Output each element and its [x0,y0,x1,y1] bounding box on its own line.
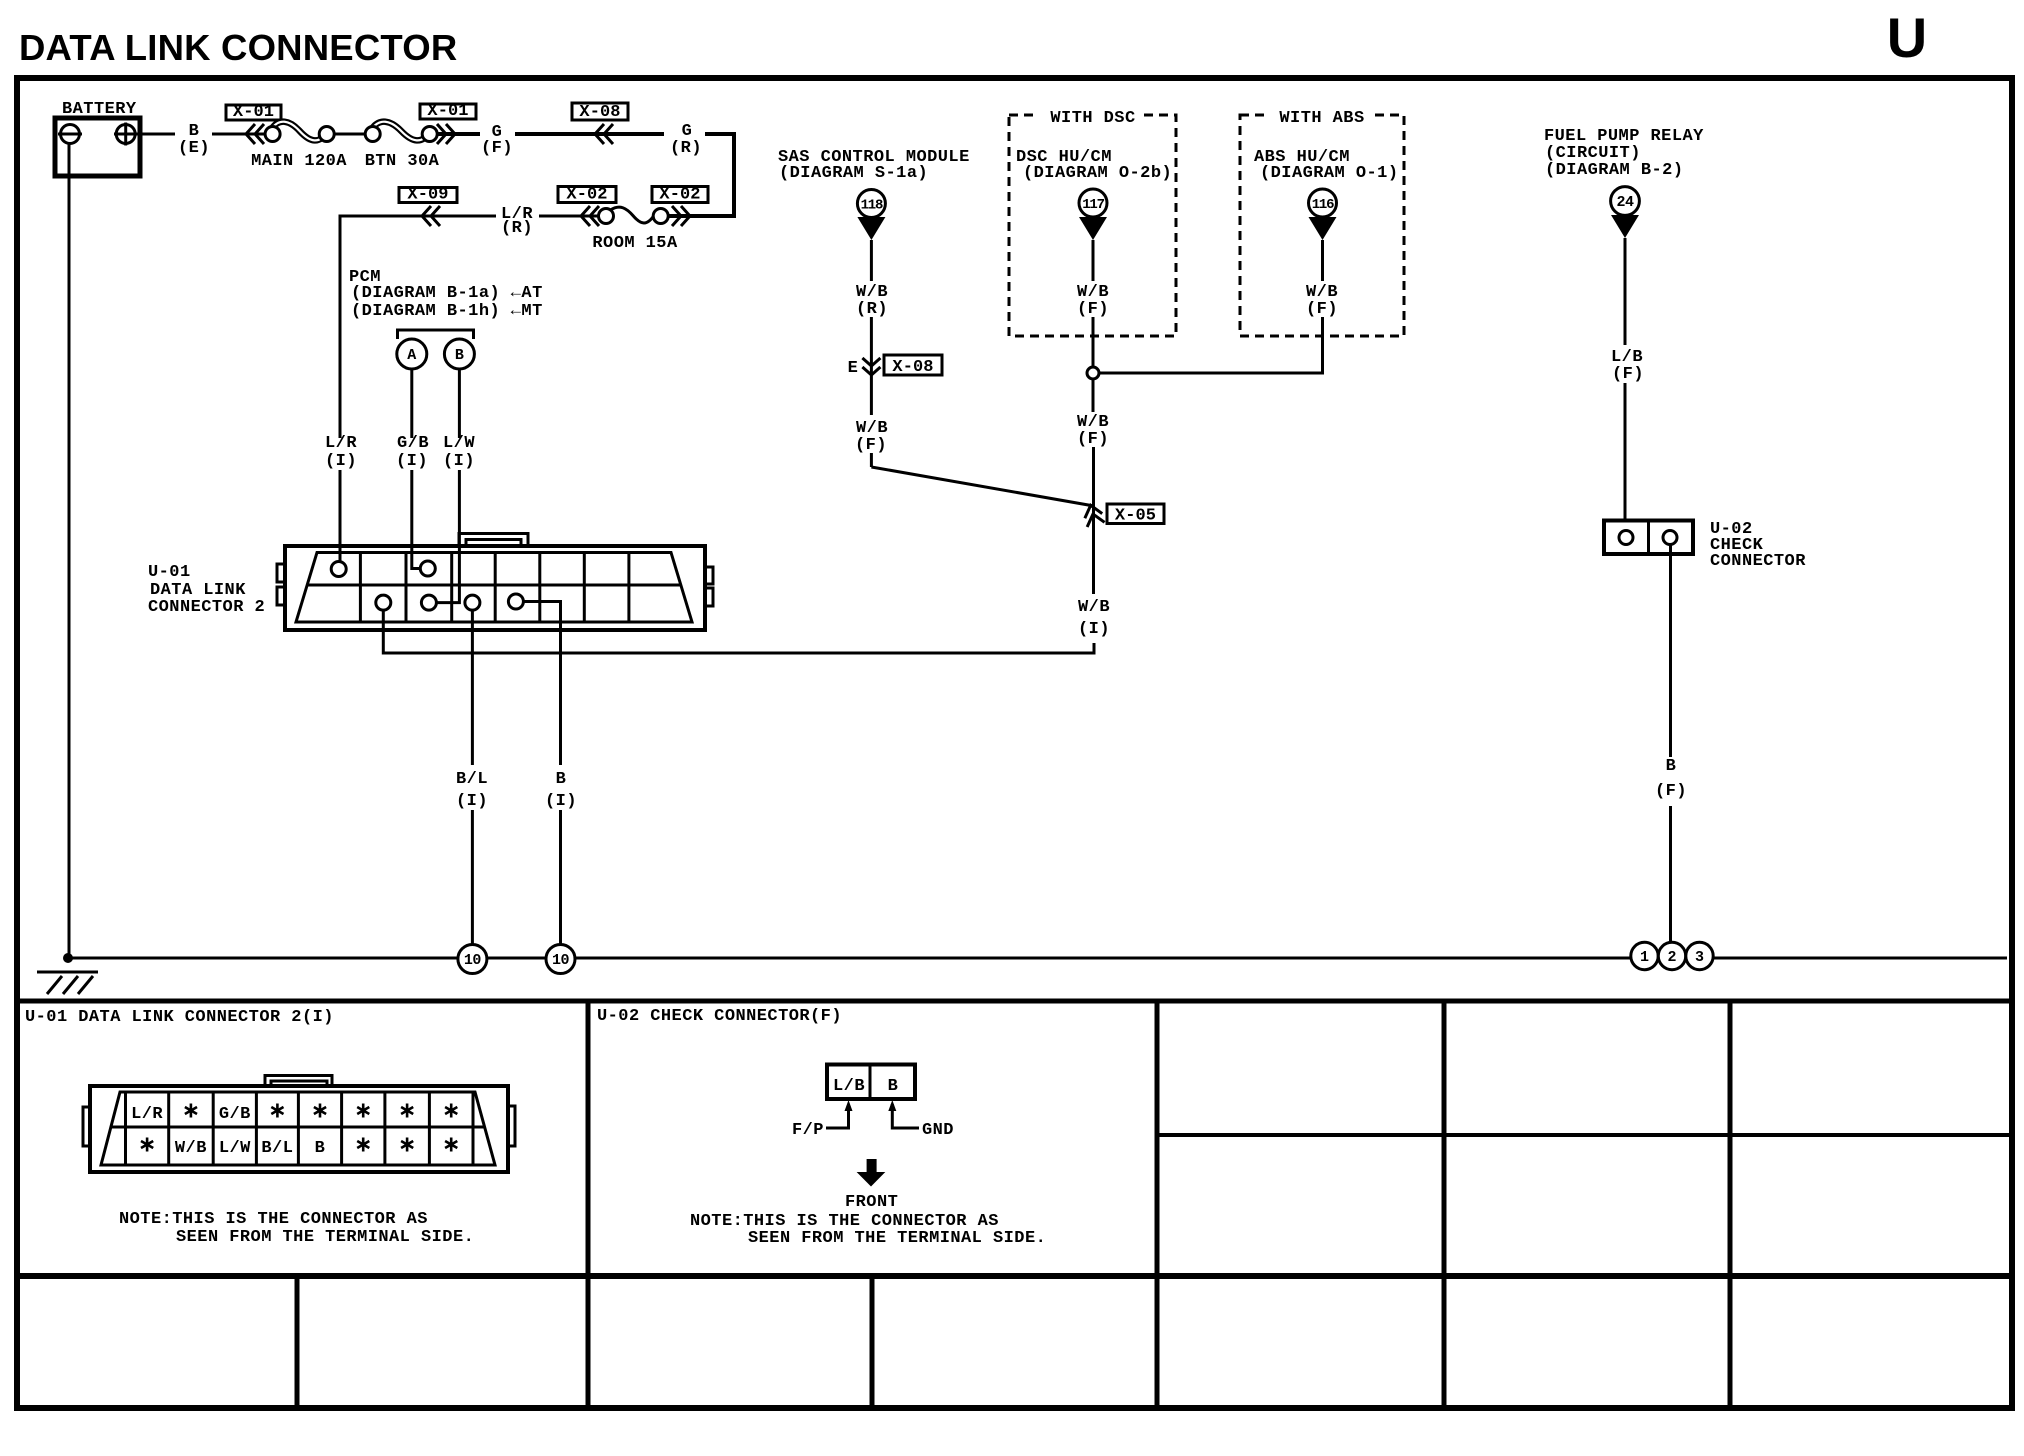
wire node down to X-05 [1092,379,1095,412]
svg-text:(F): (F) [855,436,887,455]
fusible link MAIN 120A [272,122,328,141]
connector U-02 check connector (schematic) [1604,521,1693,555]
wire to fuse MAIN [212,133,266,136]
svg-text:(R): (R) [670,139,702,158]
wire W/B (F) DSC [1092,240,1095,281]
svg-text:B/L: B/L [456,770,488,789]
svg-text:MAIN 120A: MAIN 120A [251,152,347,171]
wire between fuses [334,133,366,136]
fuse ROOM 15A [611,207,657,223]
U-01 pin L/W [421,595,436,610]
svg-text:W/B: W/B [1078,598,1110,617]
svg-text:B: B [315,1139,326,1158]
svg-text:A: A [407,347,416,364]
svg-text:(F): (F) [1306,300,1338,319]
svg-text:116: 116 [1312,197,1334,213]
svg-text:(E): (E) [178,139,210,158]
wire B (I) to ground [523,602,560,766]
svg-text:L/W: L/W [443,434,475,453]
wire G/B (I) [410,369,413,438]
connector X-02 (left) [558,187,616,203]
wire B (F) [1669,545,1672,758]
DSC HU/CM dashed box WITH DSC [1009,115,1176,336]
ground symbol [37,971,98,974]
svg-text:G/B: G/B [397,434,429,453]
svg-text:ROOM 15A: ROOM 15A [592,234,678,253]
svg-text:B: B [455,347,464,364]
svg-text:BTN 30A: BTN 30A [365,152,440,171]
svg-text:X-01: X-01 [233,103,274,122]
wire W/B (R) [870,240,873,281]
wire L/W (I) [458,369,461,438]
svg-text:DATA LINK CONNECTOR: DATA LINK CONNECTOR [19,27,457,68]
U-01 pin G/B [420,561,435,576]
table grid [17,999,2012,1004]
wire W/B (F) ABS [1321,240,1324,281]
svg-text:U-02 CHECK CONNECTOR(F): U-02 CHECK CONNECTOR(F) [597,1007,842,1026]
svg-text:10: 10 [464,952,482,969]
svg-text:(F): (F) [1077,300,1109,319]
svg-text:(DIAGRAM O-2b): (DIAGRAM O-2b) [1023,164,1172,183]
ABS HU/CM dashed box WITH ABS [1240,115,1404,336]
PCM terminal A [397,339,427,369]
svg-text:B: B [556,770,567,789]
svg-text:(DIAGRAM B-1a) ←AT: (DIAGRAM B-1a) ←AT [351,284,543,303]
svg-text:2: 2 [1667,949,1676,966]
svg-text:117: 117 [1082,197,1104,213]
svg-text:10: 10 [552,952,570,969]
svg-text:(DIAGRAM B-2): (DIAGRAM B-2) [1545,161,1683,180]
svg-text:CONNECTOR: CONNECTOR [1710,552,1806,571]
wire B/L (I) to ground [471,610,474,765]
svg-text:B: B [1666,757,1677,776]
ground terminal 10 (B) [546,945,575,974]
connector X-02 (right) [652,187,708,203]
connector X-01 (right) [420,104,476,119]
svg-text:L/R: L/R [131,1105,163,1124]
svg-text:X-01: X-01 [427,102,468,121]
FRONT arrow [867,1159,877,1172]
svg-text:E: E [848,359,859,378]
U-01 pin B [508,594,523,609]
wire W/B (I) from U-01 to X-05 [383,610,1094,653]
svg-text:X-08: X-08 [892,358,933,377]
ground terminal 2 [1658,942,1685,969]
svg-text:X-09: X-09 [407,186,448,205]
svg-text:F/P: F/P [792,1121,824,1140]
svg-text:(F): (F) [481,139,513,158]
wire L/B (F) [1624,238,1627,345]
svg-text:G/B: G/B [219,1105,251,1124]
inline connector X-05 [1082,503,1105,527]
svg-text:3: 3 [1695,949,1704,966]
wire fuse to G(F) [437,132,480,136]
battery negative wire to ground [68,144,71,959]
svg-text:U-01 DATA LINK CONNECTOR 2(I): U-01 DATA LINK CONNECTOR 2(I) [25,1008,334,1027]
svg-text:(F): (F) [1612,365,1644,384]
svg-text:118: 118 [861,198,883,214]
svg-text:(F): (F) [1077,430,1109,449]
U-01 pin W/B [376,595,391,610]
ground terminal 3 [1686,942,1713,969]
svg-text:B/L: B/L [261,1139,293,1158]
wire battery plus to X-01 [138,133,175,136]
wire G(F) to G(R) through X-08 [515,132,664,136]
svg-text:X-05: X-05 [1115,507,1156,526]
svg-text:(I): (I) [396,452,428,471]
svg-text:L/R: L/R [325,434,357,453]
U-02 pinout connector drawing [827,1065,915,1100]
svg-text:W/B: W/B [175,1139,207,1158]
svg-text:X-02: X-02 [659,186,700,205]
svg-text:CONNECTOR 2: CONNECTOR 2 [148,598,265,617]
svg-text:SEEN FROM THE TERMINAL SIDE.: SEEN FROM THE TERMINAL SIDE. [748,1229,1046,1248]
svg-text:(F): (F) [1655,782,1687,801]
svg-text:(R): (R) [501,219,533,238]
PCM terminal B [444,339,474,369]
svg-text:FRONT: FRONT [845,1193,898,1212]
wire G(R) corner down to room fuse row [668,134,734,216]
F/P pin pointer [826,1104,849,1128]
svg-text:U-01: U-01 [148,563,191,582]
svg-text:WITH DSC: WITH DSC [1050,109,1135,128]
svg-text:(DIAGRAM S-1a): (DIAGRAM S-1a) [779,164,928,183]
PCM bracket [398,330,474,339]
connector X-09 [399,188,457,203]
U-01 pinout labels row 2 [141,1138,153,1152]
fusible link BTN 30A [372,122,431,141]
wire room fuse to L/R(R) label [539,215,599,218]
junction node [1087,367,1099,379]
U-01 pin B/L [465,595,480,610]
svg-text:L/W: L/W [219,1139,251,1158]
wire to X-09 and corner down at x=340 [340,216,496,438]
connector X-01 (left) [226,105,281,120]
svg-text:(I): (I) [456,792,488,811]
svg-text:L/B: L/B [833,1077,865,1096]
connector X-08 [572,103,628,120]
U-01 pinout connector drawing [265,1076,332,1087]
svg-text:NOTE:THIS IS THE CONNECTOR AS: NOTE:THIS IS THE CONNECTOR AS [119,1210,428,1229]
svg-text:U: U [1887,6,1927,69]
svg-text:(I): (I) [545,792,577,811]
svg-text:WITH ABS: WITH ABS [1279,109,1364,128]
svg-text:(DIAGRAM B-1h) ←MT: (DIAGRAM B-1h) ←MT [351,302,543,321]
svg-text:SEEN FROM THE TERMINAL SIDE.: SEEN FROM THE TERMINAL SIDE. [176,1228,474,1247]
ground terminal 10 (B/L) [458,945,487,974]
ground terminal 1 [1631,942,1658,969]
svg-text:(DIAGRAM O-1): (DIAGRAM O-1) [1260,164,1398,183]
svg-text:24: 24 [1616,194,1634,211]
diagonal wire to X-05 [871,467,1094,506]
svg-text:GND: GND [922,1121,954,1140]
svg-text:(I): (I) [443,452,475,471]
GND pin pointer [892,1104,919,1128]
svg-text:X-02: X-02 [566,186,607,205]
svg-text:(R): (R) [856,300,888,319]
svg-text:B: B [888,1077,899,1096]
svg-text:(I): (I) [325,452,357,471]
ground bus wire [68,957,2007,960]
svg-text:X-08: X-08 [579,103,620,122]
U-01 pin L/R [331,562,346,577]
svg-text:1: 1 [1640,949,1649,966]
svg-text:(I): (I) [1078,620,1110,639]
